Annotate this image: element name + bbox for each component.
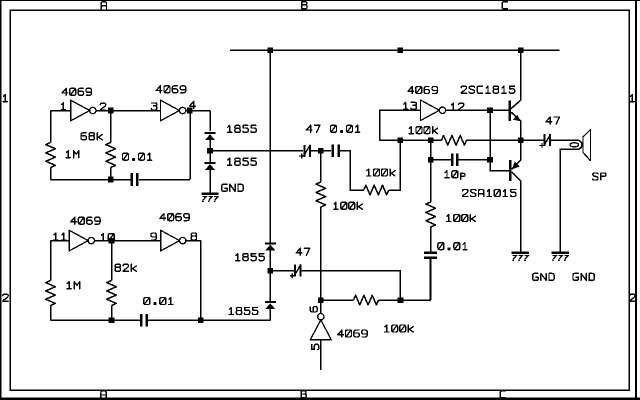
label U1A 4069 [62,88,92,95]
label 82k [115,264,136,271]
wire 10p left [431,159,451,161]
label U1B 4069 [156,86,186,93]
wire D2 to ground [209,170,211,194]
wire cap47c to corner [301,271,400,301]
op-amp U1A 4069 inverter pins 1-2 [71,100,90,121]
label U1D 4069 [160,214,190,221]
node diode chain mid [207,148,213,154]
label 100k bottom [385,325,414,332]
capacitor 0.01 mid [332,145,335,158]
pin 2 [100,103,105,110]
wire osc2 82k leg lower [111,306,113,321]
node fb row x400 [398,138,404,144]
wire feedback row right [467,139,545,141]
node fb row x430 [428,138,434,144]
label 0.01 mid [331,125,360,132]
transistor Q1 emitter arrow [513,115,521,122]
capacitor C 47 electrolytic a [303,145,305,157]
zone label C top [502,2,507,9]
label U1C 4069 [338,330,368,337]
wire pin8 output [187,240,201,242]
pin 4 [190,101,196,108]
label GND diode chain [222,184,243,191]
wire osc2 left leg lower [50,306,52,321]
transistor Q1 collector [511,50,521,109]
resistor 68k [106,143,116,168]
wire pnp base [490,160,509,171]
wire osc1 bottom right [139,179,190,181]
resistor 1M osc1 [46,143,56,168]
node diode rail mid [268,268,274,274]
node osc1 pin4 [187,108,193,114]
label 1M osc1 [66,151,79,158]
resistor 82k [107,281,117,306]
label 47 cap c [296,248,309,255]
wire 10p right [459,159,491,161]
resistor 100k mid vertical [316,182,326,207]
transistor Q2 2SA1015 base bar [509,160,512,181]
wire res to bottom node [320,207,322,300]
wire D1 to node [209,140,211,151]
transistor Q2 emitter [512,140,521,169]
wire input stub [320,340,322,370]
wire osc1 left leg upper [50,111,52,143]
pin 1 [61,103,65,110]
capacitor 10p [451,154,453,166]
wire inv4 output [320,300,322,314]
capacitor 47 electrolytic c [294,265,296,277]
node bottom row x400 [398,297,404,303]
wire res189 to up corner [389,140,401,190]
op-amp U1C 4069 inverter pins 5-6 triangle [310,320,331,340]
resistor 100k x430 [426,202,436,227]
label 0.01 osc1 [123,153,152,160]
capacitor 0.01 osc2 [140,314,143,327]
op-amp U1B 4069 inverter pins 3-4 [161,100,180,121]
wire pin10 output [94,240,160,242]
zone label B bottom [301,391,306,398]
pin 3 [151,103,157,110]
ground speaker [552,251,569,254]
wire cap to speaker [551,140,582,252]
op-amp U1D 4069 inverter pins 9-8 [161,230,180,251]
wire pin4 to diode [209,111,211,132]
diode D2 1855 [205,162,216,164]
transistor Q1 2SC1815 base bar [509,100,512,121]
label 100k feedback [409,127,438,134]
node rail mid junction [397,47,403,53]
node rail collector junction [518,47,524,53]
node rail-diode junction [268,47,274,53]
node output row x520 [518,137,524,143]
capacitor 0.01 x430 [424,251,437,254]
zone label 1 left [3,95,7,102]
op-amp U1E 4069 inverter pins 11-10 [69,230,88,251]
wire pin13 input [380,110,421,140]
resistor 100k row189 [364,185,389,195]
diode D3 1855 [265,242,276,244]
label U1E 4069 [71,217,101,224]
node mid row [318,148,324,154]
pin 6 rotated [310,307,317,313]
label U1F 4069 [408,87,438,94]
speaker SP coil [570,143,579,147]
pin 12 [451,103,464,110]
label D4 1855 [229,308,258,315]
wire top supply rail [230,49,560,51]
label 2SC1815 [461,86,515,93]
wire cap47a to node [311,150,331,152]
wire diode node to cap47a [210,150,303,152]
node pin12 branch [487,108,493,114]
wire D3 to node [269,250,271,270]
wire x430 down [430,140,432,202]
label 0.01 x430 [438,243,467,250]
zone label A bottom [101,391,106,398]
wire midnode to res [320,151,322,182]
label D1 1855 [228,125,257,132]
wire cap to corner [339,151,364,190]
transistor Q1 emitter [511,112,521,140]
zone label 2 left [3,294,8,301]
resistor 100k bottom [354,295,379,305]
wire D4 to bottom row [269,309,271,320]
resistor 1M osc2 [46,281,56,306]
zone label A top [101,2,106,9]
transistor Q2 emitter arrow [512,162,520,170]
node 10p right [487,157,493,163]
label 68k [81,133,102,140]
label 100k mid vertical [334,202,363,209]
transistor Q2 collector [512,172,521,252]
wire res to cap [430,227,432,252]
wire osc2 bottom right [147,319,270,321]
node osc2 bottom output [198,318,204,324]
node osc2 bottom mid [109,318,115,324]
speaker SP horn [583,130,591,161]
label D3 1855 [236,254,265,261]
wire osc1 68k leg upper [110,111,112,143]
resistor 100k feedback [442,136,467,146]
wire pin1 input [51,110,71,112]
wire osc2 right leg [200,241,202,321]
wire osc2 bottom left [51,319,141,321]
label 100k x430 [447,215,476,222]
zone label 1 right [630,95,634,102]
wire node to D4 [269,271,271,302]
label 1M osc2 [67,282,80,289]
ground transistor [512,251,529,254]
wire pin12 output [446,109,509,111]
wire pin12 node down [489,110,491,160]
node osc2 pin10 [109,238,115,244]
wire pin11 input [51,240,70,242]
label SP [593,173,606,180]
node osc1 pin2 [108,108,114,114]
node 10p row x430 [428,157,434,163]
label 47 speaker [546,117,560,124]
wire rail B upper [269,50,271,242]
zone label C bottom [500,391,505,398]
pin 9 [151,233,157,240]
capacitor 47 speaker [544,134,546,146]
label GND transistor [533,273,554,280]
wire osc1 68k leg lower [110,168,112,180]
label GND speaker [573,273,594,280]
zone label B top [302,2,307,9]
wire osc2 82k leg upper [111,241,113,281]
diode D1 1855 [205,132,216,134]
diode D4 1855 [265,301,276,303]
op-amp U1F 4069 inverter pins 13-12 [420,100,439,121]
pin 5 rotated [312,344,319,349]
label 0.01 osc2 [144,298,173,305]
node osc1 bottom [108,177,114,183]
op-amp U1C 4069 inverter pins 5-6 bubble [318,314,324,320]
label 100k row189 [367,169,396,176]
node bottom row left [318,297,324,303]
pin 10 [101,234,114,241]
label D2 1855 [228,158,257,165]
wire cap to bottom row [430,258,432,301]
label 2SA1015 [463,190,517,197]
wire pin4 output [187,110,210,112]
border frame outer [0,0,640,2]
wire osc1 left leg lower [50,168,52,180]
pin 11 [54,233,66,240]
wire osc1 bottom left [51,179,131,181]
pin 13 [404,102,417,109]
label 10p [445,171,465,180]
pin 8 [191,233,196,240]
wire osc2 left leg upper [50,241,52,281]
wire bottom row right [379,258,431,300]
zone label 2 right [630,294,635,301]
wire diode rail node to cap47c [270,270,294,272]
wire osc1 right leg [189,111,191,180]
capacitor 0.01 osc1 [131,173,134,186]
wire node to D2 [209,151,211,162]
label 47 cap a [306,125,319,132]
ground diode chain [202,192,219,195]
wire feedback row left [380,139,442,141]
wire bottom row left [321,299,354,301]
wire pin2 output [96,110,161,112]
